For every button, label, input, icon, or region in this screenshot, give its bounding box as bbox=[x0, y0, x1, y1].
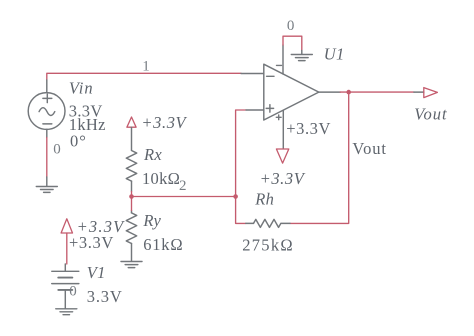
battery V1 bbox=[52, 264, 79, 309]
+3.3V supply flag above V1 bbox=[61, 219, 72, 264]
svg-text:1: 1 bbox=[142, 58, 150, 74]
resistor Ry bbox=[126, 211, 136, 262]
svg-text:Vin: Vin bbox=[69, 79, 94, 98]
wire net 2 rail bbox=[132, 196, 236, 198]
wire net 1 from Vin top to op-amp inverting input bbox=[47, 73, 241, 80]
svg-text:61kΩ: 61kΩ bbox=[143, 235, 183, 254]
wire net 0 from Vin bottom to ground bbox=[46, 138, 48, 178]
svg-text:0°: 0° bbox=[70, 132, 87, 151]
svg-text:+3.3V: +3.3V bbox=[141, 113, 187, 132]
svg-text:Vout: Vout bbox=[414, 104, 447, 123]
ground under V1 bbox=[56, 309, 77, 315]
wire Rx bottom to rail bbox=[131, 192, 133, 197]
svg-text:3.3V: 3.3V bbox=[87, 287, 123, 306]
wire Vout down to Rh bbox=[290, 92, 349, 223]
junction dot right (node 2) bbox=[233, 194, 238, 199]
+3.3V supply flag above Rx bbox=[127, 117, 136, 127]
wire node 2 to Rh left bbox=[236, 197, 246, 224]
wire op-amp V- pin to ground (net 0) bbox=[283, 36, 302, 50]
svg-text:+3.3V: +3.3V bbox=[69, 233, 114, 252]
wire Vout to output flag bbox=[349, 91, 414, 93]
svg-text:V1: V1 bbox=[87, 263, 106, 282]
svg-text:2: 2 bbox=[179, 178, 187, 194]
svg-text:275kΩ: 275kΩ bbox=[242, 235, 294, 254]
svg-text:0: 0 bbox=[53, 142, 61, 158]
resistor Rh bbox=[246, 219, 290, 227]
svg-text:Vout: Vout bbox=[352, 139, 386, 158]
ground under Vin bbox=[36, 177, 57, 192]
svg-text:10kΩ: 10kΩ bbox=[142, 169, 180, 188]
output flag Vout bbox=[414, 88, 438, 98]
svg-text:Rx: Rx bbox=[143, 145, 162, 164]
op-amp U1 bbox=[241, 45, 340, 149]
wire op-amp output to junction bbox=[340, 91, 348, 93]
junction dot output node Vout bbox=[346, 90, 351, 95]
svg-text:U1: U1 bbox=[324, 44, 345, 63]
junction dot left (node 2) bbox=[129, 194, 134, 199]
svg-text:Ry: Ry bbox=[142, 211, 161, 230]
wire Ry top to rail bbox=[131, 197, 133, 211]
svg-text:Rh: Rh bbox=[254, 189, 274, 208]
+3.3V supply flag below op-amp (V+) bbox=[276, 149, 288, 163]
svg-text:+3.3V: +3.3V bbox=[286, 119, 331, 138]
svg-text:+3.3V: +3.3V bbox=[260, 169, 306, 188]
ground under Ry bbox=[121, 262, 142, 268]
svg-text:0: 0 bbox=[69, 284, 77, 300]
svg-text:0: 0 bbox=[287, 18, 295, 34]
wire net 2 up to op-amp non-inverting input bbox=[236, 110, 246, 197]
voltage source Vin bbox=[28, 80, 65, 138]
resistor Rx bbox=[126, 127, 136, 191]
ground at U1 negative supply bbox=[291, 51, 312, 61]
